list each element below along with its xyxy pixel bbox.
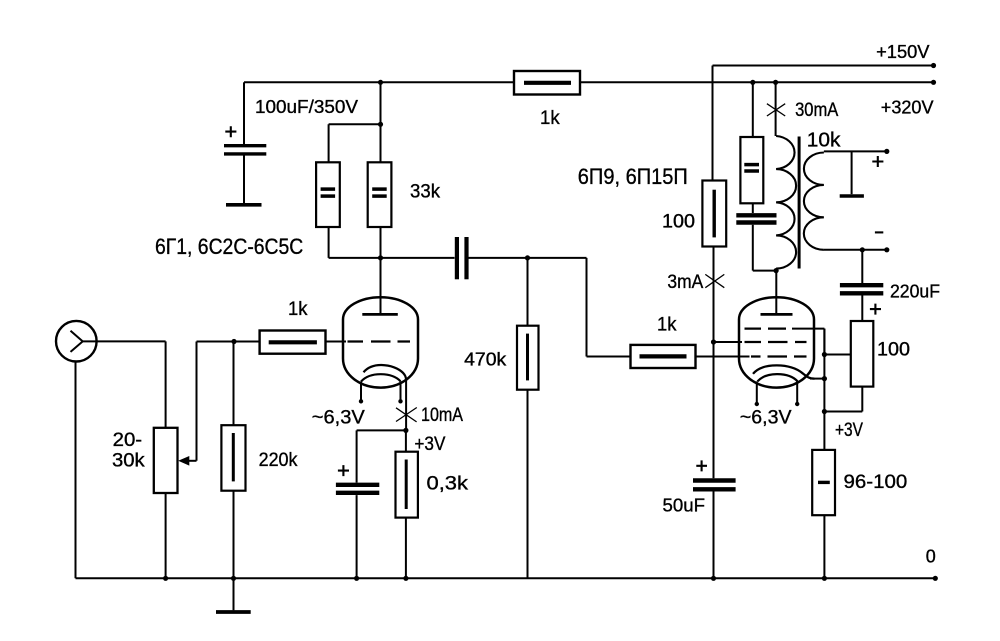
node dot cathode rail at 100 bottom <box>822 409 827 414</box>
wire cathode rail V2 <box>823 329 825 450</box>
node dot 220k bottom <box>231 576 236 581</box>
measure mark x 30mA <box>767 104 785 116</box>
svg-text:33k: 33k <box>410 181 440 203</box>
tube V1 anode <box>362 258 398 315</box>
label + of C3 <box>338 465 349 476</box>
input connector X1 <box>56 321 97 362</box>
node dot secondary bottom end <box>884 247 889 252</box>
svg-text:6Г1, 6С2С-6С5С: 6Г1, 6С2С-6С5С <box>155 234 303 259</box>
node dot anode V1 <box>378 255 383 260</box>
node dot cathode junction V1 <box>403 428 408 433</box>
tube V1 6G1 envelope <box>343 297 418 387</box>
svg-text:~6,3V: ~6,3V <box>740 406 792 428</box>
node dot 0,3k bottom <box>403 576 408 581</box>
resistor 33k left unit <box>316 162 340 227</box>
resistor snubber (rect with bars) <box>740 82 763 203</box>
label + output <box>872 156 883 167</box>
svg-text:1k: 1k <box>657 314 677 336</box>
measure mark x 10mA <box>396 408 417 422</box>
tube V2 screen grid <box>714 341 807 343</box>
label - output <box>875 231 883 233</box>
wire secondary bottom tap <box>824 249 887 251</box>
wire wiper riser <box>197 342 260 461</box>
node dot 50uF bottom <box>711 576 716 581</box>
svg-text:220uF: 220uF <box>890 281 940 302</box>
tube V1 cathode <box>364 365 407 430</box>
measure mark x 3mA <box>705 274 724 287</box>
capacitor C1 100uF/350V lead <box>243 82 245 144</box>
svg-text:1k: 1k <box>540 107 560 129</box>
svg-text:50uF: 50uF <box>663 495 706 516</box>
node dot pot bottom <box>163 576 168 581</box>
svg-text:100: 100 <box>662 210 695 232</box>
ground bar under 220k <box>216 610 251 614</box>
node 0 end dot <box>933 576 938 581</box>
svg-text:+3V: +3V <box>835 420 863 441</box>
potentiometer 20-30k body <box>154 428 178 493</box>
resistor 100 feedback <box>824 321 873 412</box>
node dot 33k top <box>378 122 383 127</box>
node dot cathode rail at 100 tap <box>822 352 827 357</box>
ground bar secondary <box>840 194 864 198</box>
node dot on +320V at primary <box>773 80 778 85</box>
label + of C1 <box>225 126 236 137</box>
node dot primary bottom <box>774 268 779 273</box>
node dot grid node V1 <box>231 339 236 344</box>
node dot on +320V rail at x=380.5 <box>378 80 383 85</box>
tube V2 heater <box>755 374 800 406</box>
svg-text:10k: 10k <box>807 129 842 151</box>
svg-text:+320V: +320V <box>881 97 934 117</box>
transformer T1 secondary winding <box>804 153 824 250</box>
node dot secondary top end <box>884 149 889 154</box>
svg-text:0,3k: 0,3k <box>427 473 469 495</box>
capacitor snubber <box>736 203 776 270</box>
resistor 0,3k cathode V1 <box>396 430 418 578</box>
wire secondary ground drop <box>851 151 853 194</box>
tube V2 suppressor grid <box>745 329 825 355</box>
wire connector ground leg <box>75 362 77 579</box>
svg-text:30mA: 30mA <box>795 100 838 121</box>
svg-text:100uF/350V: 100uF/350V <box>255 96 359 117</box>
wire secondary top tap <box>824 150 887 152</box>
svg-text:470k: 470k <box>464 350 507 370</box>
capacitor 220uF feedback <box>840 250 883 321</box>
wire anode node of V1 <box>329 258 631 357</box>
label + of 220uF <box>870 304 881 315</box>
wire +150V rail <box>713 65 935 67</box>
transformer T1 primary winding <box>776 136 796 269</box>
node +320V end dot <box>931 80 936 85</box>
potentiometer wiper arrow <box>178 456 196 466</box>
svg-text:0: 0 <box>926 547 936 567</box>
tube V1 grid <box>326 341 411 343</box>
transformer T1 primary feed <box>775 82 777 136</box>
resistor 33k right unit <box>368 162 392 227</box>
capacitor C3 cathode bypass V1 <box>336 430 379 578</box>
transformer T1 core <box>798 137 801 269</box>
svg-text:96-100: 96-100 <box>844 471 908 493</box>
wire input to pot <box>97 341 166 427</box>
wire 33k bottoms to anode node <box>329 227 381 258</box>
svg-text:20-: 20- <box>113 430 143 451</box>
tube V2 cathode <box>753 365 824 378</box>
resistor 100 screen <box>702 181 726 343</box>
wire screen rail from +150V corner <box>712 66 714 181</box>
tube V1 heater <box>359 374 403 403</box>
wire V1 cathode junction <box>357 429 406 431</box>
resistor 470k <box>517 258 539 578</box>
node dot on +320V at snubber <box>750 80 755 85</box>
svg-text:10mA: 10mA <box>421 405 463 426</box>
svg-text:~6,3V: ~6,3V <box>312 407 365 429</box>
resistor 220k <box>221 342 245 611</box>
wire screen rail to 50uF <box>713 342 715 478</box>
node dot cathode rail at cathode <box>822 376 827 381</box>
wire pot bottom leg <box>165 493 167 578</box>
tube V2 6P9 envelope <box>739 297 814 387</box>
svg-text:+150V: +150V <box>876 42 929 62</box>
ground bar under C1 <box>226 203 262 207</box>
capacitor C2 coupling <box>457 237 467 279</box>
resistor 96-100 cathode V2 <box>812 450 835 578</box>
svg-text:+3V: +3V <box>414 433 445 455</box>
svg-text:100: 100 <box>877 339 910 361</box>
wire +320V rail right segment <box>580 81 934 83</box>
tube V2 control grid <box>751 355 807 357</box>
node dot 220uF tap <box>860 247 865 252</box>
wire 33k top tap <box>329 82 381 162</box>
label + of 50uF <box>696 460 707 471</box>
node dot 96-100 bottom <box>822 576 827 581</box>
svg-text:3mA: 3mA <box>667 272 703 293</box>
svg-text:6П9, 6П15П: 6П9, 6П15П <box>578 164 688 189</box>
resistor 1k grid stopper V1 <box>260 331 326 354</box>
resistor 1k (B+ dropper) <box>514 71 580 95</box>
node dot 470k tap <box>525 255 530 260</box>
node dot C3 bottom <box>354 576 359 581</box>
resistor 1k grid stopper V2 <box>631 345 750 368</box>
node +150V end dot <box>931 63 936 68</box>
capacitor 50uF screen bypass <box>693 481 736 579</box>
svg-text:220k: 220k <box>259 449 298 471</box>
node dot screen tap <box>711 339 716 344</box>
wire ground bus (bottom rail) <box>76 577 936 579</box>
tube V2 anode <box>761 271 793 315</box>
capacitor C1 100uF/350V plates <box>224 146 266 203</box>
svg-text:1k: 1k <box>288 298 308 320</box>
wire +320V rail left segment <box>244 81 514 83</box>
svg-text:30k: 30k <box>112 451 145 472</box>
